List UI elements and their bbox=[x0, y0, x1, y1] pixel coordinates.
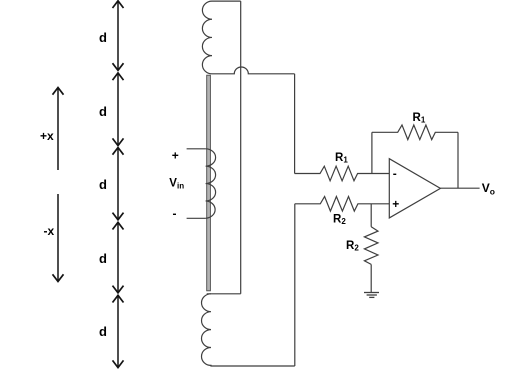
wire: S1 top to vertical bus bbox=[212, 0, 241, 2]
secondary coil S2 (bottom) bbox=[201, 294, 294, 366]
resistor R2 (to ground) bbox=[364, 227, 378, 265]
wire: primary + lead bbox=[187, 148, 206, 150]
wire: primary - lead bbox=[187, 217, 206, 219]
wire: S1 bottom terminal with hop over bus bbox=[212, 67, 295, 74]
svg-text:d: d bbox=[99, 104, 107, 119]
dimension line segment d5 bbox=[113, 295, 124, 367]
ground bbox=[364, 293, 379, 298]
svg-text:+: + bbox=[392, 197, 399, 211]
svg-text:d: d bbox=[99, 177, 107, 192]
core bar bbox=[207, 75, 211, 291]
svg-text:R1: R1 bbox=[335, 152, 348, 165]
svg-text:R1: R1 bbox=[413, 112, 426, 125]
op-amp U1 bbox=[389, 159, 440, 218]
+x direction arrow bbox=[53, 88, 64, 171]
svg-text:+x: +x bbox=[40, 129, 54, 143]
dimension line segment d3 bbox=[113, 148, 124, 220]
svg-text:d: d bbox=[99, 251, 107, 266]
resistor R2 (input, on plus wire) bbox=[295, 197, 390, 212]
wire: feedback down to output node bbox=[457, 132, 459, 188]
wire: feedback tap up from minus node bbox=[371, 132, 373, 173]
svg-text:Vin: Vin bbox=[169, 177, 184, 190]
dimension line segment d2 bbox=[113, 73, 124, 146]
-x direction arrow bbox=[53, 194, 64, 282]
resistor R1 (feedback) bbox=[372, 125, 458, 140]
wire: R2 to ground bbox=[370, 264, 372, 292]
primary coil P bbox=[206, 149, 216, 219]
svg-text:-x: -x bbox=[44, 224, 55, 238]
wire: op-amp output bbox=[440, 187, 479, 189]
resistor R1 (input, on minus wire) bbox=[295, 166, 390, 181]
svg-text:+: + bbox=[172, 149, 179, 163]
wire: S2 terminal up to plus branch bbox=[294, 204, 296, 366]
svg-text:-: - bbox=[393, 167, 397, 181]
wire: plus node down to R2 bbox=[370, 204, 372, 227]
wire: S1 terminal down to minus branch bbox=[294, 74, 296, 174]
svg-text:-: - bbox=[173, 207, 177, 221]
svg-text:Vo: Vo bbox=[482, 181, 495, 196]
wire: vertical bus S1 top to S2 top bbox=[240, 1, 242, 294]
svg-text:d: d bbox=[99, 30, 107, 45]
svg-text:R2: R2 bbox=[333, 214, 346, 227]
wire: S2 top to vertical bus bbox=[207, 293, 241, 295]
svg-text:d: d bbox=[99, 324, 107, 339]
dimension line segment d4 bbox=[113, 222, 124, 292]
secondary coil S1 (top) bbox=[202, 1, 212, 74]
dimension line segment d1 bbox=[113, 1, 124, 71]
svg-text:R2: R2 bbox=[346, 240, 359, 253]
